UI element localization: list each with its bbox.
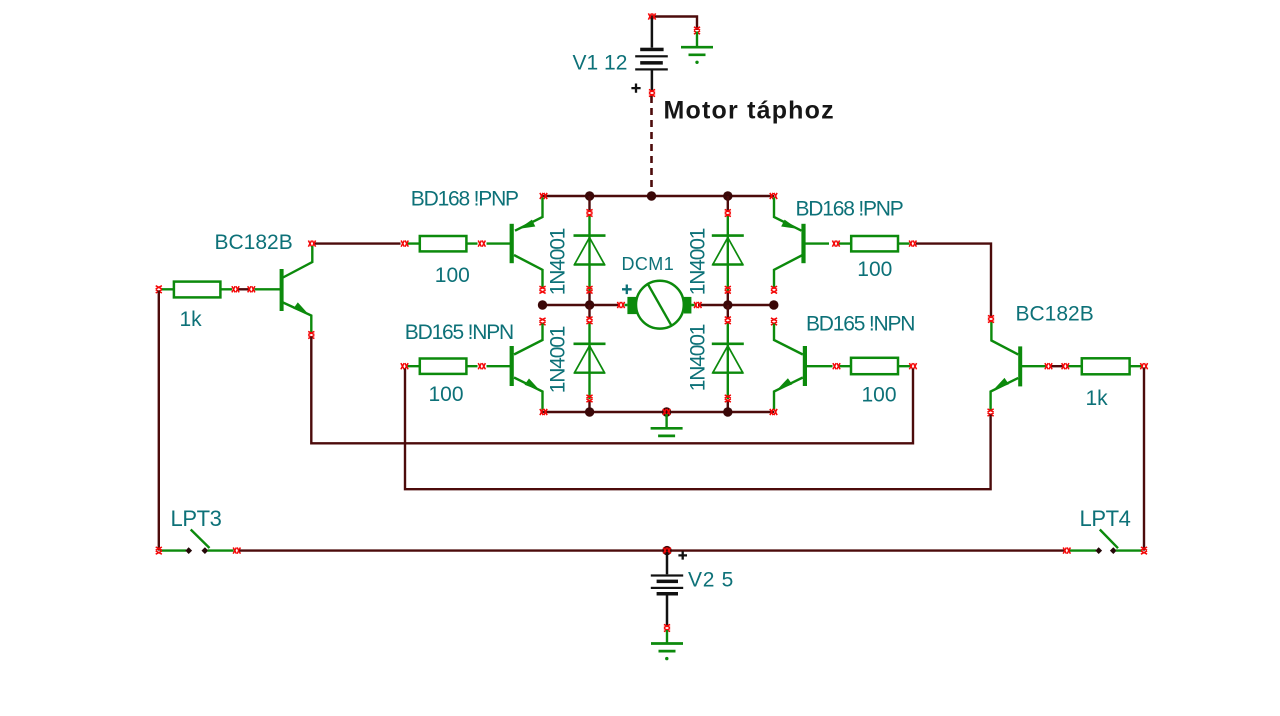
- svg-text:V1 12: V1 12: [573, 52, 628, 75]
- short wire between right BC182B base and 1k: [1051, 365, 1063, 367]
- diode D2 1N4001 upper-right: [712, 196, 744, 305]
- label DCM1: [622, 254, 675, 274]
- node marker on V2 junction: [663, 548, 670, 554]
- label BD165 !NPN right: [806, 313, 914, 336]
- motor bus left segment: [543, 304, 620, 306]
- svg-text:LPT4: LPT4: [1080, 506, 1131, 531]
- resistor 1k left: [161, 282, 232, 298]
- wire row A left (BC182B collector to 100 resistor): [313, 242, 401, 244]
- node at bottom bus left end: [540, 409, 547, 415]
- node at BC182B left emitter pin: [308, 331, 314, 338]
- svg-text:100: 100: [435, 264, 470, 287]
- label 1N4001 lower-left: [547, 326, 570, 393]
- svg-text:LPT3: LPT3: [171, 506, 222, 531]
- svg-text:100: 100: [862, 384, 897, 407]
- node at right BC182B emitter pin: [988, 409, 994, 416]
- transistor BD168 right (PNP high side): [774, 198, 829, 289]
- node at LPT4 right pin: [1141, 547, 1147, 554]
- label V1 12: [573, 52, 628, 75]
- svg-text:1k: 1k: [180, 308, 203, 331]
- node at BC182B left collector pin: [308, 241, 315, 247]
- node at V1 top corner: [648, 13, 655, 19]
- junction bottom bus at battery V2: [662, 546, 671, 555]
- node at right PNP collector pin: [771, 286, 777, 293]
- node at D1 bottom pin: [586, 286, 592, 293]
- label BC182B right: [1016, 303, 1094, 326]
- short wire between 1k and BC182B base: [238, 288, 250, 290]
- junction motor bus at right diodes: [723, 300, 732, 309]
- battery V1: [635, 18, 668, 92]
- label BD168 !PNP left: [411, 188, 518, 211]
- node at right BC182B base pin: [1045, 363, 1052, 369]
- svg-text:1k: 1k: [1086, 387, 1109, 410]
- node at 100 TR left pin: [832, 241, 839, 247]
- node marker on ground junction: [663, 409, 670, 415]
- ground G1 (green, top): [681, 32, 713, 65]
- ground G2 (bridge emitters): [651, 414, 683, 436]
- label 1k left: [180, 308, 203, 331]
- bottom bridge bus wire: [543, 411, 775, 413]
- node at motor right pin: [694, 302, 701, 308]
- label BD168 !PNP right: [796, 198, 903, 221]
- node at LPT3 left pin: [156, 547, 162, 554]
- node at 100 BR left pin: [833, 363, 840, 369]
- node at resistor 100 TL right pin: [478, 241, 485, 247]
- node at D4 top pin: [725, 317, 731, 324]
- svg-text:V2 5: V2 5: [688, 569, 734, 592]
- label LPT3: [171, 506, 222, 531]
- svg-text:BD165 !NPN: BD165 !NPN: [405, 321, 513, 344]
- svg-text:DCM1: DCM1: [622, 254, 675, 274]
- label 1k right: [1086, 387, 1109, 410]
- node at 100 BL left pin: [401, 363, 408, 369]
- node at BC182B left base pin: [248, 286, 255, 292]
- junction motor bus at left collectors: [538, 300, 547, 309]
- node at motor left pin: [617, 302, 624, 308]
- node at LPT3 right pin: [233, 548, 240, 554]
- dashed wire from V1 to top bus: [650, 96, 653, 195]
- motor DCM1: [625, 281, 695, 329]
- bottom bus wire: [240, 549, 1065, 551]
- junction on top bus at supply feed: [647, 191, 656, 200]
- svg-text:BC182B: BC182B: [215, 231, 293, 254]
- node at left PNP collector pin: [539, 286, 545, 293]
- svg-text:1N4001: 1N4001: [547, 326, 570, 393]
- node at 1k left pin: [156, 286, 162, 293]
- ground G3 (bottom): [651, 630, 683, 660]
- diode D3 1N4001 lower-left: [574, 305, 606, 412]
- diode D4 1N4001 lower-right: [712, 305, 744, 412]
- transistor BC182B left (NPN): [255, 246, 313, 334]
- wire from right BC182B emitter to 100 BL left pin (cross wire 2): [405, 369, 991, 490]
- svg-text:100: 100: [857, 258, 892, 281]
- resistor 100 top-left: [406, 236, 478, 251]
- node at D2 top pin: [725, 209, 731, 216]
- diode D1 1N4001 upper-left: [574, 196, 606, 305]
- resistor 100 bottom-right: [840, 358, 911, 374]
- label V2 5: [688, 569, 734, 592]
- junction on top bus at right diode: [723, 191, 732, 200]
- node at D1 top pin: [586, 209, 592, 216]
- junction on top bus at left diode: [585, 191, 594, 200]
- node at D2 bottom pin: [725, 286, 731, 293]
- resistor 100 bottom-left: [408, 359, 478, 374]
- junction motor bus at left diodes: [585, 300, 594, 309]
- label BC182B left: [215, 231, 293, 254]
- label 1N4001 upper-left: [547, 228, 570, 295]
- switch LPT3: [160, 530, 234, 554]
- svg-text:BD165 !NPN: BD165 !NPN: [806, 313, 914, 336]
- label Motor taphoz: [664, 97, 835, 125]
- label LPT4: [1080, 506, 1131, 531]
- label 100 top-right: [857, 258, 892, 281]
- node at V2 bottom pin: [664, 624, 670, 631]
- node at resistor 100 TL left pin: [401, 241, 408, 247]
- node at bottom bus right end: [770, 409, 777, 415]
- node at LPT4 left pin: [1063, 548, 1070, 554]
- label 100 bottom-left: [429, 383, 464, 406]
- node at top bus right end: [770, 193, 777, 199]
- transistor BD165 left (NPN low side): [487, 324, 543, 411]
- resistor 100 top-right: [839, 236, 910, 251]
- node at 100 BR right pin: [909, 363, 916, 369]
- svg-text:1N4001: 1N4001: [687, 324, 710, 391]
- node at right NPN collector pin: [771, 318, 777, 325]
- junction bottom bus at left diode: [585, 407, 594, 416]
- transistor BD165 right (NPN low side, mirrored): [774, 324, 833, 411]
- junction bottom bus at right diode: [723, 407, 732, 416]
- svg-text:100: 100: [429, 383, 464, 406]
- node at ground G1 pin: [694, 27, 700, 34]
- transistor BC182B right (NPN, mirrored): [991, 321, 1046, 411]
- node at right BC182B collector pin: [988, 315, 994, 322]
- svg-text:BD168 !PNP: BD168 !PNP: [796, 198, 903, 221]
- svg-text:1N4001: 1N4001: [547, 228, 570, 295]
- svg-text:1N4001: 1N4001: [687, 228, 710, 295]
- resistor 1k right: [1068, 358, 1142, 374]
- wire from 1k right down to LPT4: [1143, 368, 1145, 551]
- node at 1k right resistor left pin: [1062, 363, 1069, 369]
- label 1N4001 upper-right: [687, 228, 710, 295]
- wire from left BC182B emitter to 100 BR right pin (cross wire 1): [311, 337, 913, 444]
- node at 1k right resistor right pin: [1140, 363, 1147, 369]
- node at D3 bottom pin: [586, 395, 592, 402]
- node at D4 bottom pin: [725, 395, 731, 402]
- plus sign of battery V1: [631, 84, 640, 93]
- node at left NPN collector pin: [539, 318, 545, 325]
- node at D3 top pin: [586, 317, 592, 324]
- node at 100 BL right pin: [478, 363, 485, 369]
- label 1N4001 lower-right: [687, 324, 710, 391]
- battery V2: [651, 552, 683, 626]
- transistor BD168 left (PNP high side): [487, 198, 543, 289]
- svg-text:Motor táphoz: Motor táphoz: [664, 97, 835, 125]
- plus sign of motor: [622, 285, 632, 295]
- junction bottom bus at ground: [662, 407, 671, 416]
- wire from 100 TR to right BC182B collector: [916, 244, 991, 317]
- wire from 1k left down to LPT3: [158, 291, 160, 551]
- junction motor bus at right collectors: [769, 300, 778, 309]
- label BD165 !NPN left: [405, 321, 513, 344]
- plus sign of battery V2: [678, 551, 687, 559]
- switch LPT4: [1070, 530, 1143, 554]
- label 100 top-left: [435, 264, 470, 287]
- node at V1 bottom pin: [649, 89, 655, 96]
- top bus wire: [543, 195, 775, 197]
- motor bus right segment: [698, 304, 774, 306]
- svg-text:BD168 !PNP: BD168 !PNP: [411, 188, 518, 211]
- wire from battery V1 plus terminal to ground: [651, 17, 697, 31]
- label 100 bottom-right: [862, 384, 897, 407]
- svg-text:BC182B: BC182B: [1016, 303, 1094, 326]
- node at 100 TR right pin: [909, 241, 916, 247]
- node at top bus left end: [540, 193, 547, 199]
- node at 1k right pin: [232, 286, 239, 292]
